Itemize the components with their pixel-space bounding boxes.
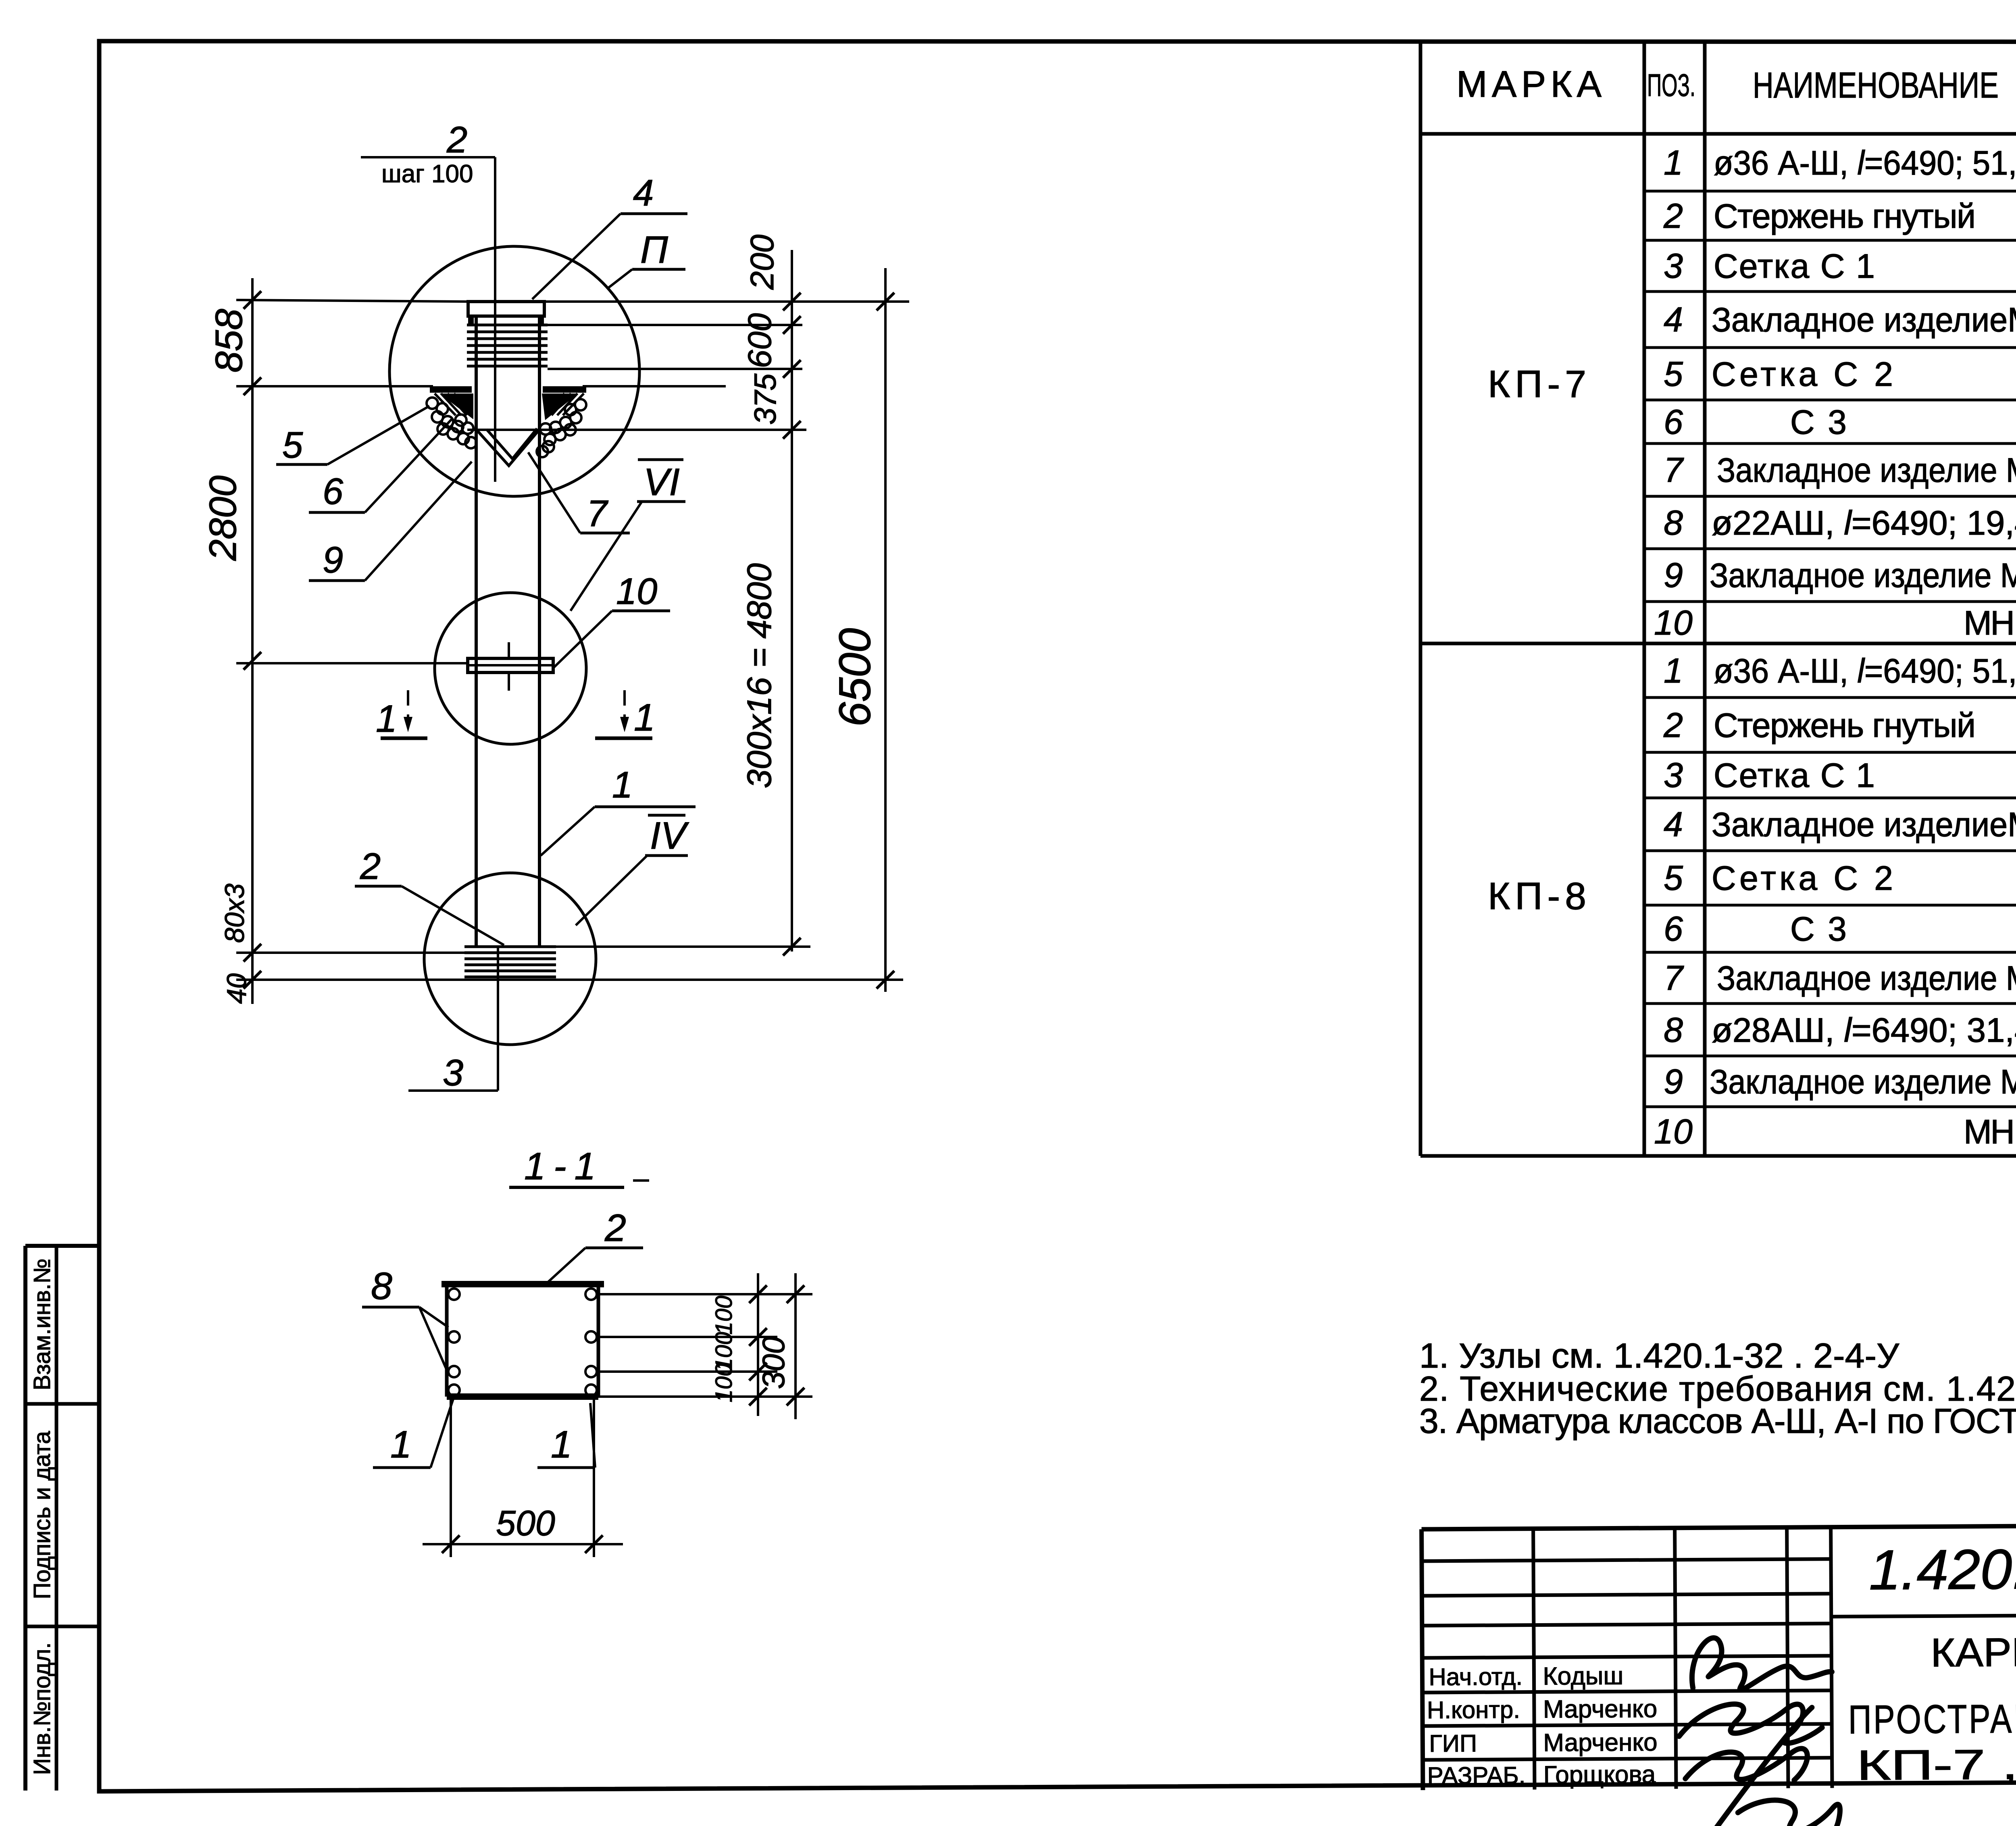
svg-text:5: 5 (1664, 859, 1683, 897)
svg-text:Закладное изделие МН 4: Закладное изделие МН 4 (1710, 1063, 2016, 1101)
label 2 bent bar (544, 1207, 643, 1286)
svg-text:С 3: С 3 (1790, 910, 1847, 948)
table row KP-7 pos 1 (1664, 144, 2016, 182)
right extensions of section (598, 1294, 812, 1397)
table row KP-8 pos 3 (1664, 756, 2016, 795)
svg-text:7: 7 (1664, 959, 1684, 997)
svg-text:200: 200 (744, 235, 781, 290)
svg-text:Сетка С 2: Сетка С 2 (1712, 355, 1893, 393)
svg-text:ПРОСТРАНСТВЕННЫЙ: ПРОСТРАНСТВЕННЫЙ (1848, 1695, 2016, 1742)
bottom rebar cluster (464, 947, 556, 977)
label 9 (309, 462, 472, 581)
svg-text:2: 2 (604, 1207, 626, 1249)
svg-text:3: 3 (1664, 756, 1683, 795)
label 7 (528, 452, 630, 534)
svg-text:КП-7 , КП-8: КП-7 , КП-8 (1856, 1740, 2016, 1789)
svg-text:НАИМЕНОВАНИЕ: НАИМЕНОВАНИЕ (1753, 65, 1999, 106)
label 10 (554, 571, 670, 667)
svg-text:100: 100 (711, 1364, 737, 1403)
svg-text:Сетка С 2: Сетка С 2 (1712, 859, 1893, 897)
svg-text:шаг 100: шаг 100 (381, 160, 473, 188)
svg-text:ø28АШ, l=6490; 31,4 кг: ø28АШ, l=6490; 31,4 кг (1712, 1011, 2016, 1049)
label IV detail (576, 814, 689, 925)
svg-text:3: 3 (443, 1052, 463, 1093)
specification table grid (1420, 41, 2016, 1156)
svg-text:Стержень гнутый: Стержень гнутый (1714, 197, 1976, 235)
console top extension right (583, 385, 726, 387)
svg-text:Нач.отд.: Нач.отд. (1429, 1663, 1522, 1691)
table row KP-7 pos 6 (1664, 403, 2016, 441)
svg-text:2: 2 (1663, 197, 1683, 235)
svg-text:1: 1 (1664, 144, 1683, 182)
svg-text:375: 375 (748, 373, 783, 425)
svg-text:КП-7: КП-7 (1488, 363, 1591, 406)
right console weld (537, 389, 586, 457)
svg-text:IV: IV (650, 814, 689, 857)
svg-text:ПОЗ.: ПОЗ. (1647, 67, 1695, 103)
svg-text:6: 6 (1664, 403, 1683, 441)
svg-text:10: 10 (1654, 604, 1693, 642)
svg-text:9: 9 (1664, 1062, 1683, 1101)
table row KP-8 pos 4 (1664, 805, 2016, 844)
dim 500 (423, 1400, 623, 1557)
label 4 top plate (532, 173, 687, 299)
svg-text:Подпись и дата: Подпись и дата (29, 1431, 55, 1599)
signature squiggles (1679, 1637, 1840, 1826)
table row KP-8 pos 8 (1664, 1011, 2016, 1049)
svg-text:РАЗРАБ.: РАЗРАБ. (1427, 1762, 1526, 1789)
svg-text:КП-8: КП-8 (1488, 875, 1591, 918)
svg-text:300: 300 (756, 1337, 791, 1389)
detail circle II (389, 246, 639, 496)
svg-text:Инв.№подл.: Инв.№подл. (29, 1642, 55, 1775)
svg-text:600: 600 (741, 313, 778, 369)
svg-text:Кодыш: Кодыш (1543, 1662, 1623, 1690)
svg-text:7: 7 (1664, 451, 1684, 489)
extension line hoops bottom 600 (548, 368, 802, 370)
svg-text:2: 2 (360, 846, 381, 887)
column right edge (538, 316, 541, 947)
table row KP-8 pos 1 (1664, 652, 2016, 690)
label 2 bottom hoops (355, 846, 504, 945)
table row KP-8 pos 10 (1654, 1112, 2016, 1151)
label 1 right corner bar (537, 1403, 595, 1468)
svg-text:ø36 А-Ш, l=6490; 51,94кг: ø36 А-Ш, l=6490; 51,94кг (1714, 144, 2016, 182)
extension line 375 bottom (467, 429, 806, 431)
svg-text:П: П (640, 229, 668, 271)
axis vertical line (494, 157, 496, 482)
right dimension line 6500 (877, 268, 894, 992)
svg-text:Сетка С 1: Сетка С 1 (1714, 247, 1875, 285)
svg-text:1-1: 1-1 (524, 1145, 604, 1188)
extension line top of column (236, 300, 468, 302)
extension bottom rebar right (556, 945, 810, 948)
svg-text:МН 6: МН 6 (1964, 604, 2016, 642)
dim line 300 (787, 1273, 804, 1419)
label 6 (309, 419, 452, 512)
svg-text:1: 1 (612, 764, 633, 806)
svg-text:9: 9 (1664, 556, 1683, 595)
svg-text:5: 5 (1664, 355, 1683, 394)
extension bottom line full (236, 979, 903, 981)
axis bottom with label 3 (408, 947, 498, 1091)
svg-text:VI: VI (644, 461, 680, 504)
svg-text:40: 40 (221, 973, 252, 1004)
svg-text:Марченко: Марченко (1543, 1695, 1658, 1723)
svg-text:8: 8 (1664, 1011, 1683, 1049)
svg-text:Взам.инв.№: Взам.инв.№ (29, 1258, 55, 1390)
table row KP-7 pos 7 (1664, 451, 2016, 489)
top hoops (467, 325, 548, 366)
svg-text:ø22АШ, l=6490; 19,4 кг: ø22АШ, l=6490; 19,4 кг (1712, 504, 2016, 542)
table row KP-8 pos 7 (1664, 959, 2016, 997)
svg-text:2: 2 (446, 119, 467, 160)
extension line hoop 200 (548, 324, 802, 326)
svg-text:Закладное изделие МН 3: Закладное изделие МН 3 (1717, 451, 2016, 489)
svg-text:80х3: 80х3 (219, 883, 250, 943)
svg-text:4: 4 (1664, 805, 1683, 844)
svg-text:10: 10 (1654, 1112, 1693, 1151)
dim line 100x3 (749, 1273, 767, 1416)
svg-text:1: 1 (1664, 652, 1683, 690)
detail circle IV (424, 873, 596, 1045)
svg-text:Закладное изделие МН 3: Закладное изделие МН 3 (1717, 959, 2016, 997)
label 5 (276, 406, 429, 466)
svg-text:4: 4 (1664, 300, 1683, 339)
svg-text:Стержень гнутый: Стержень гнутый (1714, 706, 1976, 744)
label 1 column bar (541, 764, 696, 856)
svg-text:6500: 6500 (830, 628, 880, 727)
corner bars circles (448, 1289, 597, 1396)
svg-text:С 3: С 3 (1790, 403, 1847, 441)
console top extension left (236, 385, 433, 387)
label VI detail (571, 460, 685, 611)
column left edge (475, 316, 478, 947)
svg-text:1: 1 (634, 696, 655, 739)
middle plate item 10 (468, 642, 553, 691)
section square outline item 2 (442, 1284, 604, 1397)
extension line middle plate (236, 662, 468, 664)
svg-text:2800: 2800 (202, 475, 244, 561)
right dimension line 300x16 (783, 250, 801, 956)
svg-text:6: 6 (323, 471, 344, 512)
V notch item 7 (476, 429, 539, 466)
table row KP-7 pos 2 (1663, 197, 2016, 235)
svg-text:2: 2 (1663, 706, 1683, 745)
left console weld item 5/6/9 (427, 389, 477, 448)
svg-text:1: 1 (551, 1423, 572, 1466)
svg-text:8: 8 (371, 1265, 392, 1308)
svg-text:ГИП: ГИП (1429, 1730, 1477, 1757)
svg-text:1: 1 (390, 1423, 412, 1466)
svg-text:Сетка С 1: Сетка С 1 (1714, 756, 1875, 794)
table row KP-7 pos 4 (1664, 300, 2016, 339)
title block grid (1422, 1523, 2016, 1790)
svg-text:3: 3 (1664, 247, 1683, 285)
svg-text:Закладное изделиеМН1: Закладное изделиеМН1 (1712, 806, 2016, 843)
svg-text:Марченко: Марченко (1543, 1728, 1658, 1757)
svg-text:3. Арматура классов А-Ш, А-I: 3. Арматура классов А-Ш, А-I по ГОСТ 578… (1419, 1402, 2016, 1441)
svg-text:Закладное изделиеМН1: Закладное изделиеМН1 (1712, 301, 2016, 339)
section mark 1 right (595, 690, 655, 739)
svg-text:МН 6: МН 6 (1964, 1113, 2016, 1151)
svg-text:ø36 А-Ш, l=6490; 51,94кг: ø36 А-Ш, l=6490; 51,94кг (1714, 652, 2016, 690)
table row KP-7 pos 3 (1664, 247, 2016, 285)
svg-text:5: 5 (282, 425, 303, 466)
label 1 left corner bar (373, 1399, 453, 1468)
table row KP-8 pos 9 (1664, 1062, 2016, 1101)
svg-text:4: 4 (633, 173, 654, 214)
svg-text:КАРКАС: КАРКАС (1931, 1629, 2016, 1675)
svg-text:Н.контр.: Н.контр. (1427, 1696, 1520, 1724)
svg-text:Закладное изделие МН 4: Закладное изделие МН 4 (1710, 556, 2016, 594)
svg-text:300х16 = 4800: 300х16 = 4800 (740, 563, 778, 788)
detail circle VI (435, 593, 586, 744)
svg-text:8: 8 (1664, 504, 1683, 542)
table row KP-8 pos 5 (1664, 859, 2016, 897)
table row KP-8 pos 6 (1664, 910, 2016, 948)
label II detail (607, 229, 685, 289)
svg-text:100: 100 (711, 1296, 737, 1335)
svg-text:1: 1 (376, 698, 397, 740)
svg-text:858: 858 (208, 309, 250, 373)
table row KP-7 pos 5 (1664, 355, 2016, 394)
table row KP-8 pos 2 (1663, 706, 2016, 745)
section mark 1 left (376, 690, 427, 740)
svg-text:500: 500 (496, 1503, 555, 1543)
extension 80x3 left (236, 952, 464, 954)
svg-text:1.420.1-32.: 1.420.1-32. (1869, 1537, 2016, 1601)
table row KP-7 pos 8 (1664, 504, 2016, 542)
label 8 (362, 1265, 448, 1370)
svg-text:МАРКА: МАРКА (1456, 64, 1602, 105)
svg-text:7: 7 (587, 493, 608, 534)
svg-text:Горщкова: Горщкова (1543, 1761, 1656, 1789)
svg-text:9: 9 (323, 539, 343, 581)
title block group (1422, 1523, 2016, 1826)
top plate item 4 (468, 302, 544, 324)
svg-text:10: 10 (616, 571, 657, 612)
table row KP-7 pos 10 (1654, 604, 2016, 642)
side stamp boxes (25, 1246, 99, 1791)
table row KP-7 pos 9 (1664, 556, 2016, 595)
svg-text:6: 6 (1664, 910, 1683, 948)
left dimension line (244, 278, 261, 1004)
